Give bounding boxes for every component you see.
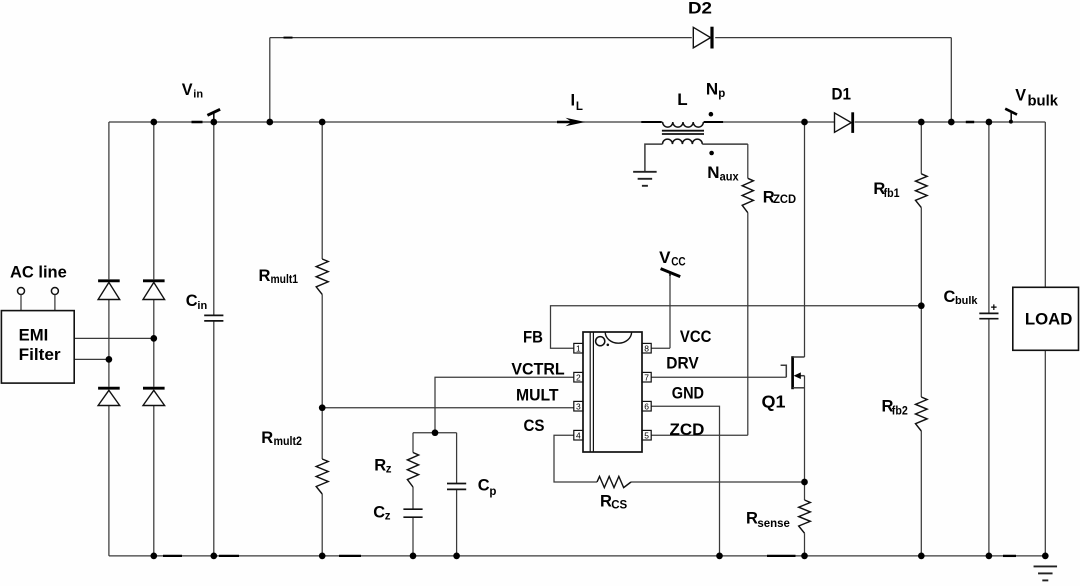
pin 8: [642, 343, 651, 353]
wire compensation node to Rz: [413, 432, 435, 434]
diode D2: [693, 27, 710, 48]
svg-text:C: C: [186, 292, 198, 310]
svg-text:sense: sense: [757, 518, 790, 530]
node FB divider junction: [918, 302, 925, 309]
svg-text:C: C: [373, 503, 385, 521]
capacitor Cbulk: [979, 312, 998, 314]
pin 7: [642, 372, 651, 382]
svg-text:D2: D2: [688, 0, 712, 18]
svg-text:7: 7: [644, 372, 649, 382]
transistor Q1 channel bar: [791, 356, 794, 389]
node compensation junction: [432, 429, 439, 436]
svg-text:in: in: [193, 89, 203, 101]
svg-text:in: in: [197, 300, 207, 312]
node bridge junction lower: [106, 356, 113, 363]
bridge diode top-left: [98, 279, 120, 282]
wire Rsense bottom lead: [804, 533, 806, 556]
node CS RCS junction: [801, 479, 808, 486]
wire left bridge column: [108, 122, 110, 279]
diode D1: [835, 113, 852, 132]
svg-text:DRV: DRV: [666, 355, 699, 373]
wire MULT line: [322, 407, 574, 409]
wire D2 branch left vertical: [269, 38, 271, 122]
wire D2 branch right vertical: [950, 38, 952, 122]
svg-text:AC line: AC line: [10, 263, 67, 281]
wire VCTRL line: [435, 377, 574, 433]
svg-text:V: V: [182, 81, 193, 99]
wire FB feedback line: [551, 306, 922, 349]
resistor Rfb1: [916, 174, 928, 208]
wire VCC pin8 lead: [651, 347, 670, 349]
wire main rail left of transformer: [109, 121, 663, 123]
wire Q1 source column: [804, 376, 806, 482]
bridge diode top-right: [143, 279, 165, 282]
bridge diode bottom-right: [143, 387, 165, 390]
wire EMI filter upper output: [74, 337, 154, 339]
wire dash accent near Vbulk: [966, 121, 974, 124]
AC line terminal 1: [18, 288, 25, 295]
svg-text:R: R: [374, 456, 386, 474]
wire dash accents bottom rail: [163, 555, 182, 557]
node bridge junction upper: [150, 335, 157, 342]
svg-text:R: R: [261, 429, 273, 447]
resistor RCS: [597, 476, 631, 487]
svg-text:L: L: [677, 90, 687, 109]
svg-text:ZCD: ZCD: [670, 421, 705, 439]
svg-text:bulk: bulk: [955, 295, 978, 307]
resistor Rmult1: [316, 259, 328, 294]
svg-text:CS: CS: [524, 417, 545, 435]
svg-text:fb1: fb1: [884, 188, 901, 200]
svg-text:N: N: [706, 80, 718, 99]
wire ZCD pin5 lead: [651, 434, 748, 436]
wire dash accent top rail: [284, 37, 293, 39]
node bottom rail junctions: [150, 553, 157, 560]
transistor Q1 drain lead: [793, 356, 805, 358]
svg-text:8: 8: [644, 343, 649, 353]
EMI Filter box: [1, 311, 74, 384]
wire ZCD column: [747, 144, 749, 178]
svg-text:I: I: [571, 92, 576, 110]
wire Cp branch: [456, 433, 458, 484]
svg-text:mult1: mult1: [271, 274, 299, 286]
svg-text:CS: CS: [611, 499, 627, 511]
svg-text:2: 2: [576, 372, 581, 382]
wire GND pin6 lead: [651, 406, 719, 556]
svg-text:Filter: Filter: [19, 345, 61, 364]
resistor Rfb2: [916, 397, 928, 431]
transformer Naux secondary winding: [663, 139, 703, 144]
transformer core: [662, 130, 704, 132]
svg-text:VCTRL: VCTRL: [511, 361, 564, 379]
pin 5: [642, 430, 651, 440]
svg-text:bulk: bulk: [1028, 94, 1059, 110]
ground transformer secondary: [633, 171, 657, 173]
pin 1: [574, 343, 583, 353]
LOAD box: [1013, 287, 1079, 350]
wire secondary right lead: [702, 143, 748, 145]
phase dot Np: [709, 112, 714, 117]
wire bottom rail: [109, 555, 1045, 557]
bridge diode bottom-left: [98, 387, 120, 390]
svg-text:R: R: [259, 267, 271, 285]
transistor Q1 gate bracket: [781, 365, 787, 377]
probe Vcc: [669, 272, 671, 276]
svg-text:C: C: [478, 477, 490, 495]
wire VCC supply stem: [669, 276, 671, 348]
capacitor Cp: [447, 483, 466, 485]
svg-text:p: p: [718, 88, 725, 100]
svg-text:V: V: [659, 248, 671, 267]
wire Cin column: [213, 122, 215, 315]
wire DRV pin7 to gate: [651, 376, 786, 378]
svg-text:3: 3: [576, 401, 581, 411]
op-amp U1 controller IC body: [583, 332, 642, 452]
pin 6: [642, 401, 651, 411]
wire RCS to Q1 source: [631, 481, 805, 483]
svg-text:5: 5: [644, 430, 649, 440]
resistor Rz: [407, 453, 418, 488]
pin 4: [574, 430, 583, 440]
svg-text:mult2: mult2: [274, 436, 303, 448]
node main rail junctions: [150, 119, 157, 126]
wire Rfb divider column: [920, 122, 922, 174]
wire second bridge column: [153, 122, 155, 279]
wire node to Cp: [435, 432, 457, 434]
svg-text:VCC: VCC: [680, 328, 712, 346]
phase dot Naux: [709, 151, 714, 156]
wire main rail transformer to D1: [703, 121, 834, 123]
wire main rail D1 to right corner: [855, 121, 1046, 123]
arrow IL: [566, 118, 586, 127]
pin 2: [574, 372, 583, 382]
svg-text:V: V: [1015, 87, 1026, 105]
wire top D2 rail left segment: [270, 37, 692, 39]
transistor Q1 source mid lead with arrow: [795, 375, 805, 377]
svg-text:LOAD: LOAD: [1025, 309, 1073, 328]
AC line terminal 2: [51, 288, 58, 295]
svg-text:4: 4: [576, 430, 581, 440]
svg-text:L: L: [576, 101, 583, 113]
svg-text:GND: GND: [672, 385, 704, 403]
svg-text:MULT: MULT: [516, 386, 559, 404]
wire transformer lead stubs: [641, 121, 661, 123]
wire top D2 rail right segment: [715, 37, 951, 39]
wire Cbulk column: [988, 122, 990, 313]
svg-text:Q1: Q1: [762, 392, 786, 412]
wire Rmult column: [321, 122, 323, 259]
svg-text:p: p: [489, 486, 496, 498]
wire CS line: [554, 435, 597, 482]
svg-text:CC: CC: [671, 257, 686, 269]
capacitor Cz: [403, 508, 422, 510]
pin 3: [574, 401, 583, 411]
resistor RZCD: [742, 178, 753, 212]
svg-text:C: C: [944, 288, 956, 306]
svg-text:N: N: [707, 163, 719, 182]
wire Rz Cz branch: [412, 433, 414, 453]
svg-text:+: +: [991, 302, 997, 314]
wire LOAD column top: [1044, 122, 1046, 287]
svg-text:EMI: EMI: [19, 326, 49, 344]
wire Q1 drain column: [804, 122, 806, 357]
wire LOAD column bottom: [1044, 350, 1046, 556]
svg-text:1: 1: [576, 343, 581, 353]
svg-text:fb2: fb2: [892, 406, 908, 418]
wire EMI filter lower output: [74, 358, 109, 360]
ground output right: [1034, 565, 1058, 567]
svg-text:R: R: [746, 509, 758, 527]
svg-text:aux: aux: [720, 172, 740, 184]
svg-text:z: z: [386, 464, 392, 476]
node MULT junction: [319, 404, 326, 411]
svg-text:z: z: [385, 510, 391, 522]
resistor Rsense: [799, 500, 811, 533]
wire secondary left lead: [645, 144, 663, 171]
probe Vin: [213, 113, 215, 122]
capacitor Cin: [204, 314, 223, 316]
transformer L primary winding: [663, 122, 704, 127]
svg-text:6: 6: [644, 401, 649, 411]
wire dash accent near Vin: [192, 121, 203, 124]
probe Vbulk: [1010, 111, 1012, 123]
transistor Q1 source bottom lead: [793, 387, 805, 389]
svg-text:D1: D1: [832, 84, 852, 103]
svg-text:R: R: [600, 492, 612, 510]
svg-text:FB: FB: [523, 329, 543, 347]
svg-text:ZCD: ZCD: [773, 194, 796, 206]
resistor Rmult2: [316, 459, 328, 494]
